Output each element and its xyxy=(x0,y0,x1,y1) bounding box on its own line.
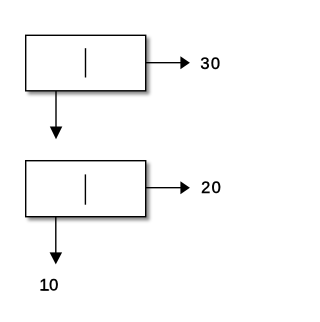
arrowhead to 30 xyxy=(180,56,190,69)
wire: arrow shaft down from box 2 xyxy=(55,217,57,253)
svg-text:20: 20 xyxy=(201,179,222,197)
serif foot of digit 1 xyxy=(42,289,49,290)
node box 2 xyxy=(26,161,146,217)
divider line in box 2 xyxy=(84,174,86,204)
node box 1 xyxy=(26,35,146,91)
arrowhead down from box 1 xyxy=(50,127,63,140)
arrowhead to 20 xyxy=(180,181,190,194)
wire: arrow shaft down from box 1 xyxy=(55,91,57,128)
svg-text:10: 10 xyxy=(39,277,59,295)
divider line in box 1 xyxy=(85,48,87,77)
wire: arrow shaft from box 1 to value 30 xyxy=(146,62,181,64)
arrowhead down from box 2 xyxy=(50,252,63,264)
svg-text:30: 30 xyxy=(200,55,221,73)
wire: arrow shaft from box 2 to value 20 xyxy=(146,187,181,189)
